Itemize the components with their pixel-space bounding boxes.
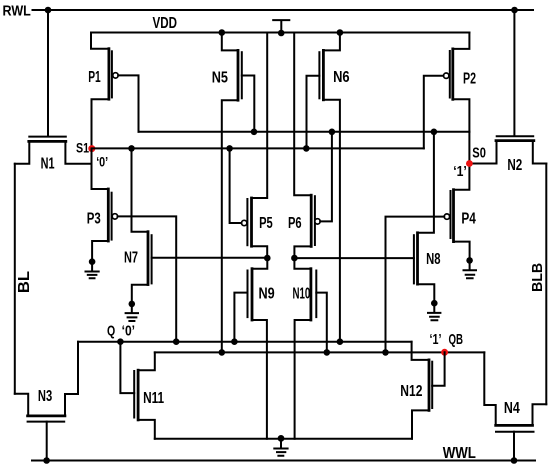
transistor N2 xyxy=(513,10,515,135)
node S0row-P6gate junction xyxy=(329,129,336,136)
ground center bottom xyxy=(280,438,282,446)
svg-text:N10: N10 xyxy=(293,285,311,302)
ground under P4 xyxy=(466,257,473,264)
svg-text:P5: P5 xyxy=(259,215,273,232)
node QB-N5source junction xyxy=(219,349,226,356)
node S1 red dot xyxy=(88,145,95,152)
power symbol VDD T-bar xyxy=(273,20,289,32)
transistor P4 xyxy=(452,190,455,242)
node Q-N11gate junction xyxy=(117,338,124,345)
svg-text:‘0’: ‘0’ xyxy=(122,323,135,340)
svg-text:N4: N4 xyxy=(504,400,520,417)
node S1-N7 junction xyxy=(128,145,135,152)
transistor P1 xyxy=(91,33,109,149)
node QB-N10gate junction xyxy=(324,349,331,356)
node S1-N6gate junction xyxy=(303,145,310,152)
wire Q row left to N3 xyxy=(66,342,79,394)
svg-text:S0: S0 xyxy=(472,145,486,162)
wire S1 row xyxy=(92,147,424,149)
transistor N3 xyxy=(15,394,65,416)
svg-text:N5: N5 xyxy=(212,69,228,86)
transistor P3 xyxy=(92,149,109,190)
node VDD-N6 junction xyxy=(337,29,344,36)
svg-text:N12: N12 xyxy=(400,383,422,400)
svg-text:Q: Q xyxy=(107,323,115,340)
svg-text:N9: N9 xyxy=(259,285,275,302)
wire RWL rail xyxy=(33,9,534,11)
svg-text:P4: P4 xyxy=(461,211,476,228)
svg-text:BL: BL xyxy=(16,271,33,293)
node bottom-ground junction xyxy=(278,435,285,442)
svg-text:‘1’: ‘1’ xyxy=(430,331,442,348)
svg-text:N2: N2 xyxy=(507,157,522,174)
svg-text:N11: N11 xyxy=(143,390,164,407)
node S0row-N8drain junction xyxy=(431,129,438,136)
wire S0 vertical xyxy=(454,132,470,190)
svg-text:VDD: VDD xyxy=(153,15,178,32)
transistor N1 xyxy=(47,10,49,136)
ground under N8 xyxy=(431,300,438,307)
transistor N4 xyxy=(484,352,546,425)
svg-text:N7: N7 xyxy=(124,250,138,267)
transistor N5 xyxy=(222,33,238,353)
node P6/N10 junction xyxy=(291,255,298,262)
node VDD-N5 junction xyxy=(219,29,226,36)
transistor N9 xyxy=(252,258,267,269)
node RWL-N2 junction xyxy=(511,7,518,14)
node VDD-T junction xyxy=(278,30,285,37)
transistor N10 xyxy=(294,258,311,269)
transistor P2 xyxy=(453,33,470,132)
ground under P3 xyxy=(89,258,96,265)
node RWL-N1 junction xyxy=(45,7,52,14)
node WWL-N3 junction xyxy=(43,457,50,464)
transistor N7 xyxy=(132,148,149,231)
svg-text:S1: S1 xyxy=(76,140,89,156)
svg-text:N1: N1 xyxy=(41,156,55,173)
node QB red dot xyxy=(441,349,448,356)
wire S0 row xyxy=(139,131,470,133)
wire QB row xyxy=(155,351,485,353)
svg-text:WWL: WWL xyxy=(443,445,476,462)
svg-text:P3: P3 xyxy=(87,211,101,228)
wire BL vertical xyxy=(14,164,16,394)
transistor P5 xyxy=(252,33,268,199)
wire bottom row xyxy=(155,438,412,440)
svg-text:P2: P2 xyxy=(463,70,476,87)
svg-text:N3: N3 xyxy=(38,388,52,405)
svg-text:‘0’: ‘0’ xyxy=(96,153,108,169)
transistor P6 xyxy=(294,33,311,196)
svg-text:QB: QB xyxy=(449,331,464,348)
transistor N11 xyxy=(120,342,134,393)
svg-text:N6: N6 xyxy=(333,69,350,86)
wire Q row xyxy=(78,341,412,343)
transistor N6 xyxy=(323,33,340,342)
transistor N12 xyxy=(412,342,429,360)
node Q-N9gate junction xyxy=(231,338,238,345)
node QB-P4gate junction xyxy=(382,349,389,356)
svg-text:P6: P6 xyxy=(288,215,302,232)
node Q-P3gate junction xyxy=(173,338,180,345)
wire WWL rail xyxy=(32,460,535,462)
ground under N7 xyxy=(129,301,136,308)
svg-text:P1: P1 xyxy=(88,69,101,86)
node S0 red dot xyxy=(466,160,473,167)
svg-text:‘1’: ‘1’ xyxy=(453,163,467,180)
wire BLB vertical xyxy=(545,164,547,405)
wire VDD rail xyxy=(91,32,469,34)
node Q-N6source junction xyxy=(337,338,344,345)
transistor N8 xyxy=(418,132,434,233)
svg-text:N8: N8 xyxy=(426,251,440,268)
node WWL-N4 junction xyxy=(511,457,518,464)
node S0row-N5gate junction xyxy=(251,129,258,136)
svg-text:RWL: RWL xyxy=(3,3,31,19)
node S1-P5gate junction xyxy=(226,145,233,152)
svg-text:BLB: BLB xyxy=(529,263,546,292)
node P5/N9 junction xyxy=(264,255,271,262)
